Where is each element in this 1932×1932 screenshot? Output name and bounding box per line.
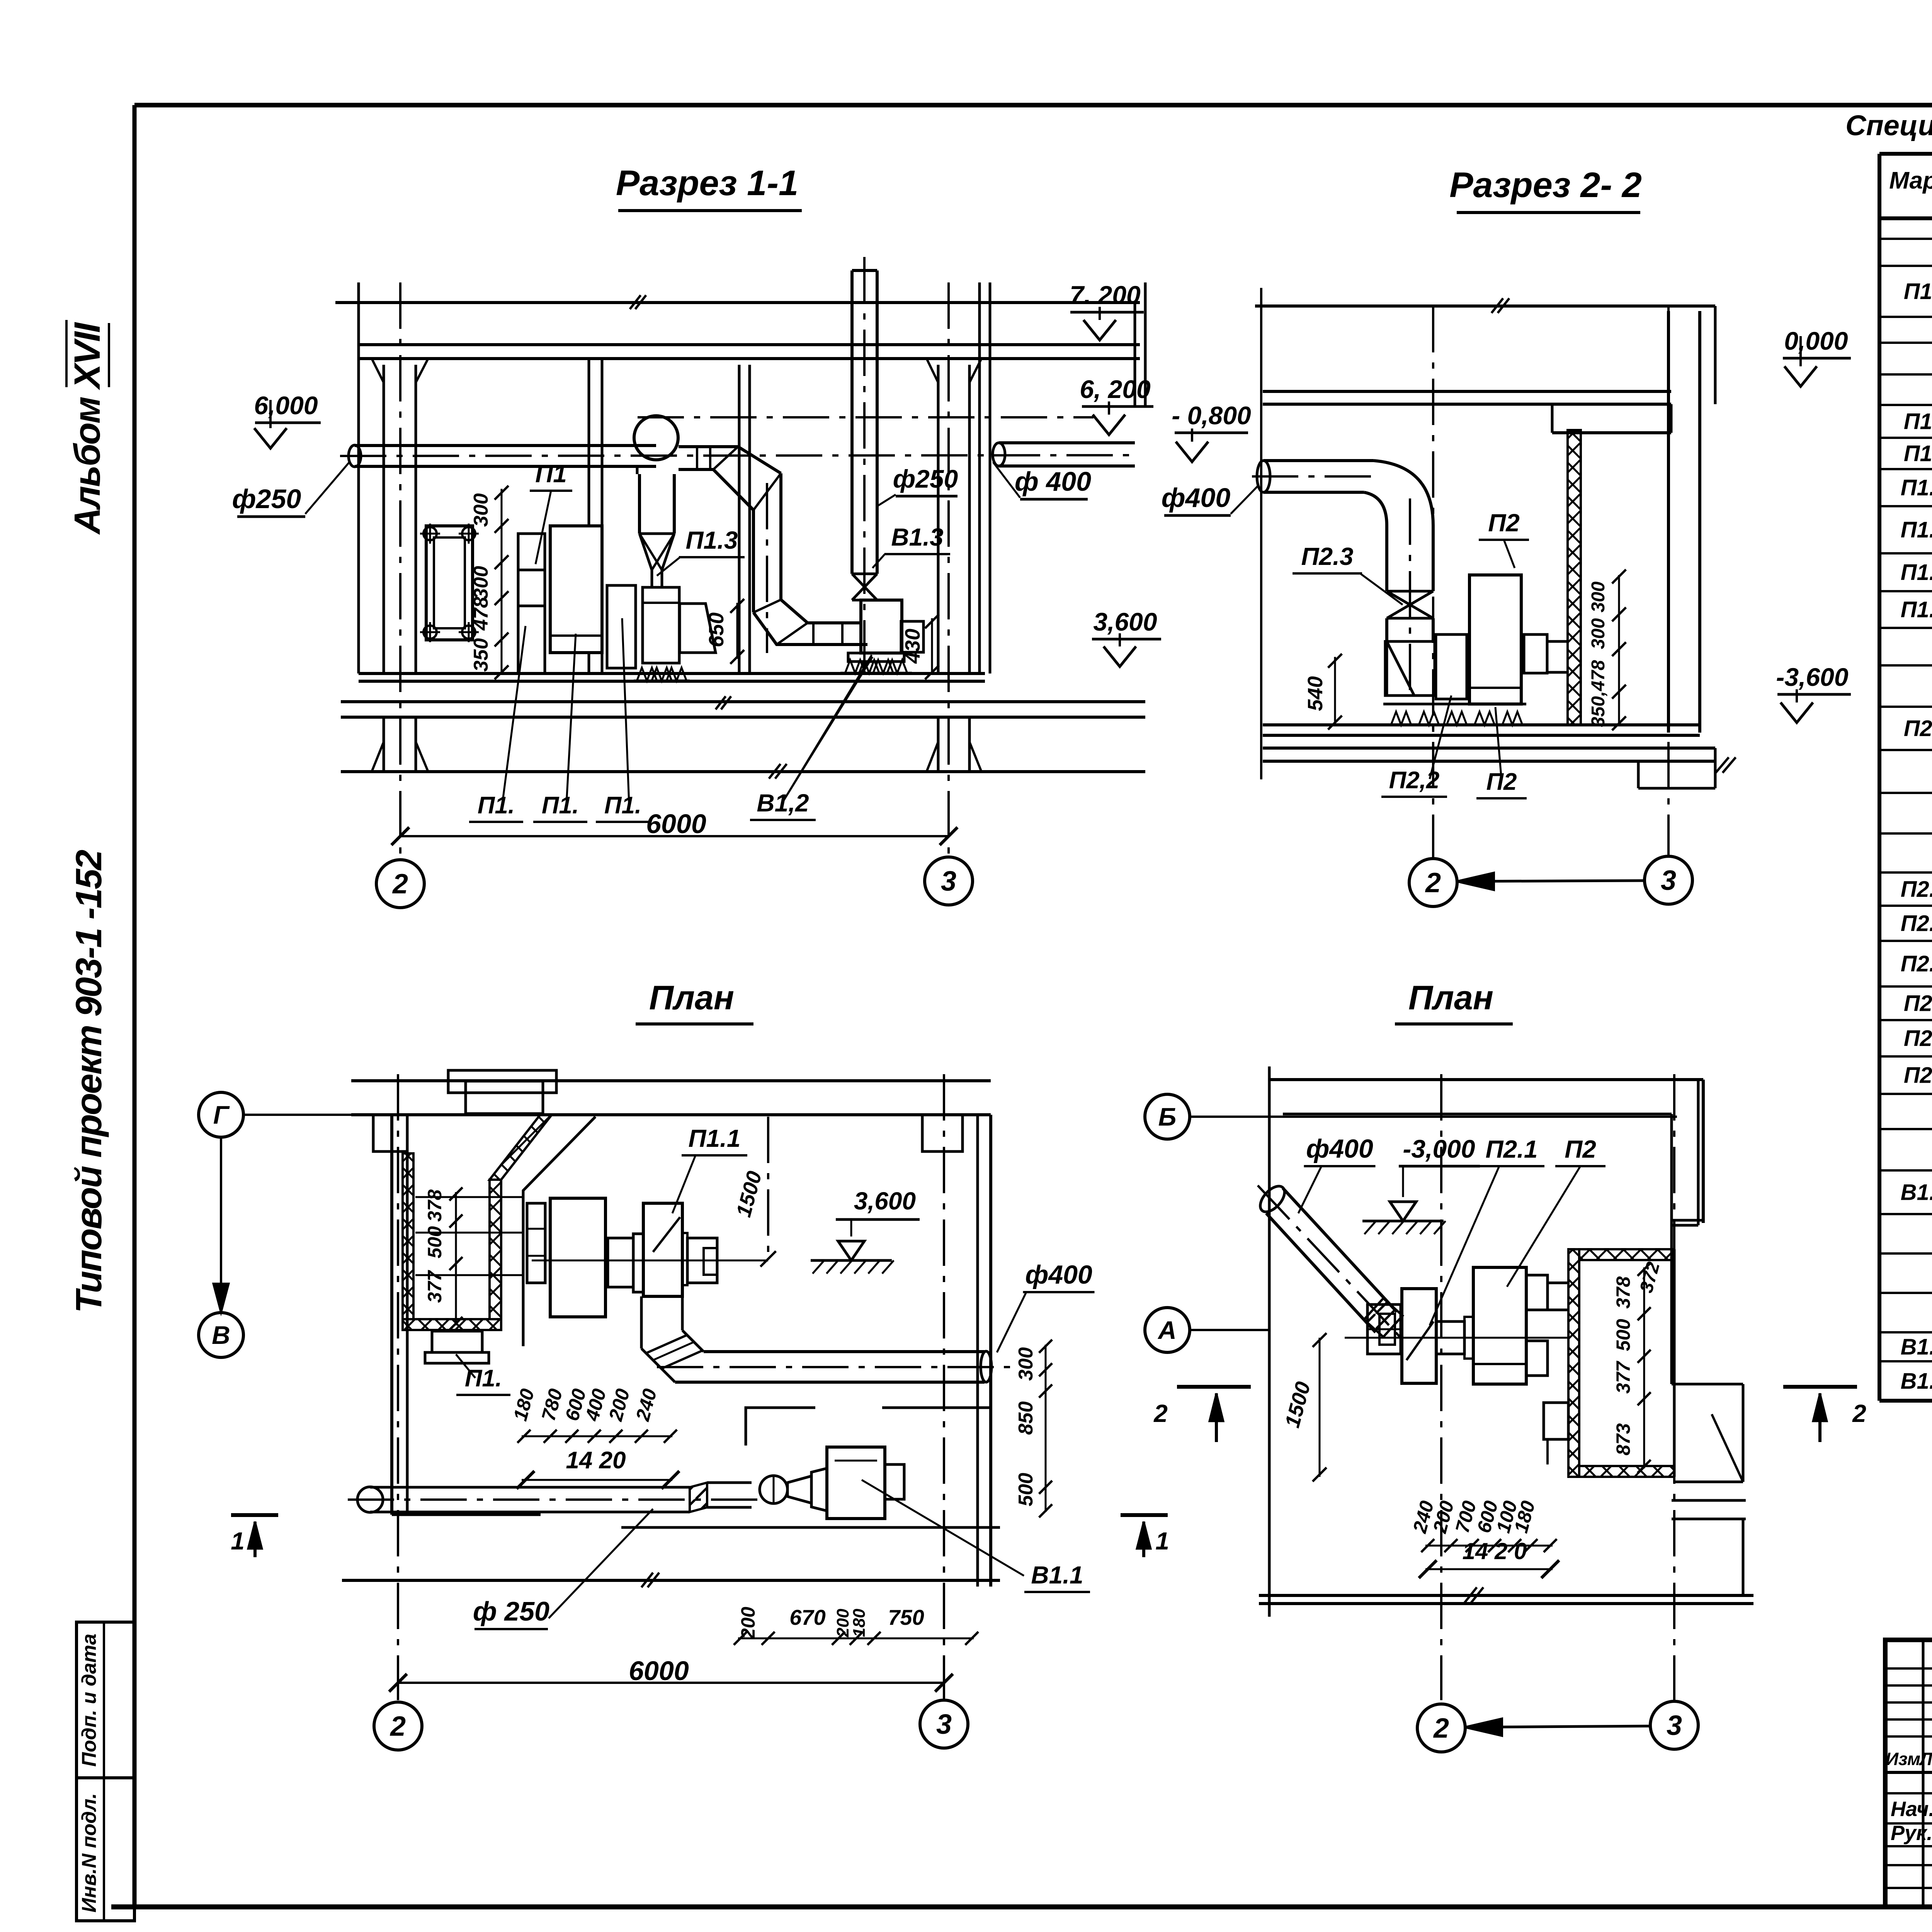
svg-text:П1. 4: П1. 4 [1901,475,1932,500]
svg-text:План: План [649,978,734,1017]
svg-text:378: 378 [424,1189,446,1222]
svg-text:П2: П2 [1565,1135,1596,1163]
svg-text:- 0,800: - 0,800 [1172,401,1251,430]
svg-text:Разрез 2- 2: Разрез 2- 2 [1449,165,1642,205]
svg-text:873: 873 [1612,1423,1634,1456]
svg-text:3: 3 [1667,1710,1682,1741]
svg-text:П1. 6: П1. 6 [1901,560,1932,585]
svg-text:П1.2: П1.2 [1904,409,1932,434]
svg-text:670: 670 [789,1605,825,1629]
svg-text:П2.6: П2.6 [1904,1026,1932,1051]
svg-text:П1.: П1. [465,1365,502,1392]
svg-text:В1. 1: В1. 1 [1901,1180,1932,1205]
svg-text:Разрез 1-1: Разрез 1-1 [616,163,798,203]
svg-text:ф 250: ф 250 [473,1596,549,1626]
svg-text:1: 1 [1155,1527,1169,1555]
svg-text:300: 300 [470,566,492,600]
svg-text:300: 300 [1588,618,1609,649]
svg-text:377: 377 [424,1270,446,1303]
svg-text:500: 500 [1015,1473,1037,1507]
svg-text:П2. 4: П2. 4 [1901,951,1932,976]
svg-text:7. 200: 7. 200 [1070,281,1141,309]
svg-text:2: 2 [1153,1400,1168,1427]
svg-text:В1. 2: В1. 2 [1901,1335,1932,1360]
svg-text:План: План [1408,978,1493,1017]
svg-text:500: 500 [424,1226,446,1259]
svg-text:6000: 6000 [629,1656,689,1686]
svg-text:Лист: Лист [1919,1749,1932,1769]
svg-text:Типовой проект 903-1 -152: Типовой проект 903-1 -152 [68,850,109,1313]
svg-text:В1.1: В1.1 [1031,1561,1083,1589]
svg-text:3,600: 3,600 [1093,607,1157,636]
svg-text:В: В [212,1321,230,1349]
svg-text:Г: Г [213,1100,230,1129]
svg-text:П1. 5: П1. 5 [1901,517,1932,543]
svg-text:14 20: 14 20 [566,1447,626,1474]
svg-text:2: 2 [1852,1400,1866,1427]
svg-text:П2. 2: П2. 2 [1901,877,1932,902]
svg-text:377: 377 [1612,1361,1634,1394]
svg-text:Марка: Марка [1889,167,1932,194]
svg-text:П1.: П1. [604,792,641,819]
svg-text:300: 300 [1588,582,1609,612]
svg-text:П1. 7: П1. 7 [1901,597,1932,622]
svg-text:Рук. гр.: Рук. гр. [1891,1821,1932,1845]
svg-text:Подп. и дата: Подп. и дата [78,1634,100,1767]
svg-text:650: 650 [705,612,728,647]
svg-text:430: 430 [901,629,924,664]
svg-text:6000: 6000 [646,809,706,839]
svg-text:-3,000: -3,000 [1403,1134,1475,1163]
svg-text:540: 540 [1304,676,1327,711]
svg-text:Нач. отд: Нач. отд [1891,1798,1932,1821]
svg-text:3: 3 [941,866,956,897]
svg-text:14 2 0: 14 2 0 [1463,1538,1527,1564]
svg-text:200: 200 [737,1607,759,1639]
svg-text:6,000: 6,000 [254,391,318,420]
svg-text:П2. 3: П2. 3 [1901,911,1932,936]
svg-text:Альбом XVII: Альбом XVII [67,321,108,535]
svg-text:ф250: ф250 [893,464,958,493]
svg-text:ф400: ф400 [1162,483,1231,513]
svg-text:350: 350 [470,638,492,672]
svg-text:Инв.N подл.: Инв.N подл. [78,1793,100,1912]
svg-text:П1: П1 [535,460,567,488]
svg-text:П2.5: П2.5 [1904,991,1932,1016]
svg-text:В1.3.: В1.3. [1901,1369,1932,1394]
svg-text:378: 378 [1612,1276,1634,1309]
svg-text:500: 500 [1612,1319,1634,1351]
svg-text:П1.: П1. [478,792,515,819]
svg-text:2: 2 [1425,867,1441,898]
svg-text:ф 400: ф 400 [1015,466,1091,497]
svg-text:478: 478 [470,597,492,631]
svg-text:Спецификация отопительно-венти: Спецификация отопительно-вентиляционных … [1845,109,1932,141]
svg-text:П2.7: П2.7 [1904,1063,1932,1088]
svg-text:350,478: 350,478 [1588,660,1609,727]
svg-text:180: 180 [850,1609,869,1637]
svg-text:П1.3: П1.3 [686,526,738,554]
svg-text:ф400: ф400 [1306,1134,1373,1163]
svg-text:П1.: П1. [542,792,579,819]
svg-text:6, 200: 6, 200 [1080,375,1151,403]
svg-text:В1.3: В1.3 [891,523,943,551]
svg-text:П2.1: П2.1 [1486,1135,1538,1163]
svg-text:750: 750 [888,1605,924,1629]
svg-text:300: 300 [1015,1347,1037,1381]
svg-text:850: 850 [1015,1401,1037,1435]
svg-text:Изм: Изм [1886,1749,1920,1769]
svg-text:Б: Б [1158,1102,1177,1131]
svg-text:П1.3: П1.3 [1904,441,1932,466]
svg-text:П1.1: П1.1 [689,1124,741,1152]
svg-text:В1,2: В1,2 [757,789,809,817]
svg-text:П1.1: П1.1 [1904,279,1932,304]
svg-text:3: 3 [1661,865,1676,896]
svg-text:ф400: ф400 [1025,1260,1092,1289]
svg-text:3: 3 [936,1709,952,1740]
svg-text:2: 2 [389,1711,406,1742]
svg-text:300: 300 [470,493,492,527]
svg-text:-3,600: -3,600 [1776,663,1848,691]
svg-text:П2.1: П2.1 [1904,716,1932,741]
svg-text:0,000: 0,000 [1784,327,1848,355]
svg-text:П2: П2 [1488,509,1520,537]
svg-text:1: 1 [231,1527,245,1555]
svg-text:ф250: ф250 [232,484,301,514]
svg-text:П2.3: П2.3 [1301,543,1354,570]
svg-text:2: 2 [1433,1713,1449,1744]
svg-text:2: 2 [392,869,408,900]
svg-text:3,600: 3,600 [854,1187,916,1215]
svg-text:А: А [1157,1316,1177,1344]
